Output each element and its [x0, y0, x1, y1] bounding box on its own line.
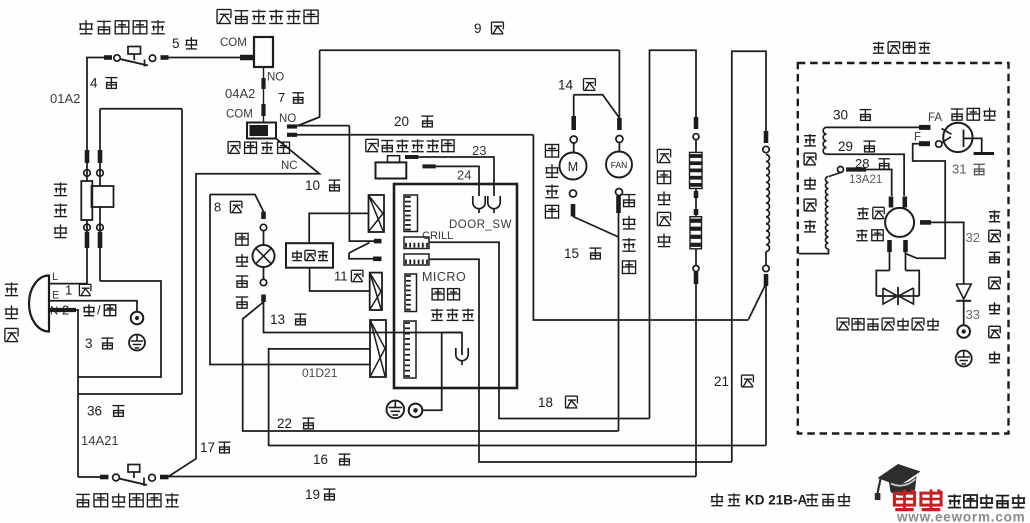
- connector CN2: [370, 273, 382, 310]
- pin header J5: [404, 321, 416, 378]
- wire 15白 (motor commons): [573, 213, 619, 431]
- label 18 黑: [538, 395, 577, 410]
- HV transformer T2 primary: [825, 177, 828, 249]
- svg-text:29: 29: [838, 139, 853, 154]
- wire board ground drop: [423, 333, 442, 411]
- wire 21棕 lower link: [749, 284, 767, 320]
- label 高压二极管组件: [989, 210, 1000, 362]
- label 8 棕: [214, 200, 242, 215]
- label 第二连锁开关 (second interlock): [366, 139, 454, 151]
- label NO2: [279, 113, 296, 125]
- board ground terminal: [409, 404, 423, 418]
- label 5 黄: [172, 36, 197, 51]
- label 31 红: [952, 162, 985, 177]
- wire 20白 to heater: [533, 135, 748, 320]
- wire NO2 to transformer relay: [297, 125, 349, 127]
- label NO: [267, 72, 284, 84]
- watermark 电子下载站: [948, 494, 1025, 507]
- magnetron thermostat TH2: [78, 465, 169, 487]
- svg-text:E: E: [52, 290, 59, 302]
- label 04A2: [225, 86, 255, 101]
- watermark www.eeworm.com: [896, 510, 1025, 523]
- first interlock switch S1: [240, 37, 273, 67]
- svg-text:M: M: [568, 160, 578, 174]
- bidirectional diode assembly D2 (双向二极管): [876, 252, 919, 305]
- micro control board U1 (outline): [394, 184, 517, 388]
- wire F heater loop: [906, 144, 946, 259]
- svg-text:14A21: 14A21: [81, 433, 119, 448]
- watermark 虫虫 (red): [894, 489, 942, 509]
- svg-text:15: 15: [564, 246, 579, 261]
- wire 16蓝: [269, 349, 766, 446]
- HV transformer T2 secondary: [823, 127, 826, 154]
- label 33: [966, 307, 980, 322]
- cavity thermostat TH1: [86, 47, 169, 67]
- label 炉腔温控器 (cavity thermostat): [79, 20, 165, 34]
- label 01D21: [302, 366, 338, 380]
- label 13 白: [270, 312, 306, 327]
- quartz tube assembly R1 (石英管组件): [690, 117, 703, 477]
- earth symbol (power): [129, 335, 145, 351]
- label 16 蓝: [313, 452, 350, 467]
- label COM2: [226, 109, 253, 121]
- wire net-01A2 riser x182: [181, 109, 183, 394]
- pin header J4: [405, 274, 417, 312]
- svg-text:/: /: [97, 303, 101, 318]
- wire 23: [418, 157, 494, 196]
- label 指示灯泡: [236, 233, 248, 308]
- fan motor M2: [606, 50, 632, 213]
- svg-text:19: 19: [305, 487, 320, 502]
- label 控制: [432, 289, 459, 300]
- label 30 红: [833, 107, 871, 122]
- svg-text:24: 24: [457, 168, 471, 183]
- label 28 红: [855, 156, 890, 171]
- wire 22蓝: [243, 302, 619, 431]
- svg-text:21: 21: [714, 374, 729, 389]
- wire 13白: [264, 302, 463, 333]
- wire N (3蓝 drop): [49, 310, 78, 477]
- svg-text:16: 16: [313, 452, 328, 467]
- label 美的 KD 21B-A 电磁炉: [711, 493, 850, 508]
- wire 1棕 (L): [49, 283, 87, 285]
- wire 18黑 (J2 to quartz rail): [429, 242, 650, 418]
- label 转盘电机: [545, 145, 558, 219]
- door switch socket (24): [473, 196, 485, 213]
- svg-text:01D21: 01D21: [302, 366, 338, 380]
- heater element R2: [763, 131, 770, 446]
- wire 8棕: [210, 195, 264, 220]
- label 高压变压器: [804, 134, 816, 232]
- svg-text:30: 30: [833, 107, 848, 122]
- label 32: [966, 230, 980, 245]
- svg-text:NO: NO: [267, 72, 284, 84]
- label 2 黄/绿: [62, 303, 116, 318]
- watermark cap logo: [875, 464, 921, 500]
- svg-text:MICRO: MICRO: [422, 270, 466, 284]
- label 11 棕: [334, 269, 363, 284]
- label 高压电容: [856, 207, 884, 240]
- fuse F1: [81, 150, 113, 284]
- label 高压危险: [873, 42, 930, 53]
- label MICRO: [422, 270, 466, 284]
- label 22 蓝: [277, 416, 314, 431]
- label 19白: [305, 487, 335, 502]
- label DOOR_SW: [449, 219, 512, 231]
- label 磁控管温控器 (magnetron thermostat): [76, 493, 179, 507]
- svg-text:13A21: 13A21: [849, 174, 882, 186]
- label 磁控管: [951, 108, 996, 120]
- magnetron V1 (磁控管): [936, 123, 994, 154]
- label 17蓝: [200, 440, 230, 455]
- label 21 棕: [714, 374, 753, 389]
- label 1 棕: [65, 283, 91, 298]
- svg-text:10: 10: [305, 178, 320, 193]
- wire 5黄: [169, 57, 241, 59]
- label 3 蓝: [85, 336, 113, 351]
- label 监控开关: [228, 142, 289, 154]
- svg-text:CRILL: CRILL: [422, 230, 453, 242]
- wire 32 (cap to HV diode): [920, 222, 964, 284]
- pin header J2: [404, 237, 429, 249]
- wire 29红: [827, 154, 905, 196]
- label 14A21: [81, 433, 119, 448]
- label 风扇电机: [622, 195, 635, 274]
- wire 4红/01A2 (fuse-left riser): [86, 58, 87, 151]
- pin header J1: [404, 195, 418, 232]
- svg-text:17: 17: [200, 440, 215, 455]
- svg-text:32: 32: [966, 230, 980, 245]
- svg-text:KD 21B-A: KD 21B-A: [745, 493, 808, 508]
- HV diode D1: [956, 284, 971, 325]
- wire net riser-bottom link: [78, 393, 182, 395]
- wire 14黑 branch: [574, 95, 620, 118]
- svg-text:23: 23: [472, 143, 486, 158]
- wire heater bracket: [732, 51, 766, 462]
- svg-text:NC: NC: [281, 160, 298, 172]
- label 14 黑: [558, 77, 595, 92]
- svg-text:11: 11: [334, 269, 348, 284]
- wire 28红: [846, 170, 892, 197]
- HV transformer primary terminal: [829, 167, 844, 177]
- label 9 棕: [474, 21, 503, 36]
- label 7 红: [278, 90, 304, 105]
- label 24: [457, 168, 471, 183]
- wire 19白: [169, 476, 697, 478]
- label 29 红: [838, 139, 875, 154]
- HV danger dashed box: [798, 63, 1009, 434]
- HV diode ground terminal: [957, 325, 970, 338]
- transformer T1 (变压器): [286, 243, 333, 268]
- second interlock switch S3: [376, 156, 436, 179]
- earth terminal: [131, 312, 144, 325]
- svg-text:F: F: [914, 132, 921, 144]
- label CRILL: [422, 230, 453, 242]
- wire T2 primary bottom: [799, 249, 829, 254]
- svg-text:www.eeworm.com: www.eeworm.com: [896, 510, 1025, 523]
- svg-text:13: 13: [270, 312, 285, 327]
- label 电源线 (power cord): [5, 282, 18, 341]
- wire 01D21 (8棕 drop): [210, 195, 370, 365]
- svg-text:FAN: FAN: [611, 160, 628, 170]
- svg-text:31: 31: [952, 162, 966, 177]
- door switch socket (23): [488, 196, 500, 213]
- wire transformer-top: [309, 213, 368, 243]
- wire fuse-top link: [100, 109, 182, 150]
- svg-text:9: 9: [474, 21, 482, 36]
- wire 13白 board link + socket: [442, 333, 468, 366]
- label 石英管组件: [657, 149, 670, 246]
- wire NO2-drop to relay contact: [349, 126, 381, 242]
- connector CN1: [369, 195, 385, 232]
- label 23: [472, 143, 486, 158]
- svg-text:8: 8: [214, 200, 221, 215]
- wire 9棕 rail: [320, 49, 620, 51]
- svg-text:3: 3: [85, 336, 93, 351]
- label L: [52, 271, 58, 283]
- label 第一连锁开关 (first interlock switch): [217, 10, 318, 24]
- svg-text:5: 5: [172, 36, 180, 51]
- connector CN3: [370, 320, 386, 377]
- label COM: [220, 37, 247, 49]
- indicator lamp DS1 (指示灯泡): [253, 224, 275, 302]
- svg-text:COM: COM: [220, 37, 247, 49]
- label 15 白: [564, 246, 601, 261]
- svg-text:04A2: 04A2: [225, 86, 255, 101]
- svg-text:28: 28: [855, 156, 869, 171]
- label 36 蓝: [87, 403, 124, 418]
- wire quartz bracket: [650, 50, 697, 418]
- HV capacitor C1 (高压电容): [885, 197, 914, 253]
- wire 30红: [827, 126, 931, 128]
- svg-text:FA: FA: [928, 112, 942, 124]
- wire 20白 NC run: [297, 134, 533, 136]
- label 20 白: [394, 114, 433, 129]
- wire 2黄绿 (E): [49, 301, 137, 312]
- svg-text:22: 22: [277, 416, 292, 431]
- svg-text:1: 1: [65, 283, 72, 298]
- wire NO1-COM2 (dashed link): [263, 67, 265, 122]
- label 4 红: [90, 75, 117, 90]
- wire 11棕: [310, 268, 370, 291]
- wire 24: [436, 166, 479, 196]
- svg-text:7: 7: [278, 90, 285, 105]
- power cord plug P1: [29, 276, 49, 332]
- svg-text:20: 20: [394, 114, 409, 129]
- wire 9棕 riser + diagonal to NO: [297, 50, 320, 126]
- svg-text:COM: COM: [226, 109, 253, 121]
- label N: [50, 306, 58, 318]
- label 01A2: [50, 91, 80, 106]
- board earth symbol: [387, 401, 405, 419]
- svg-text:01A2: 01A2: [50, 91, 80, 106]
- wire 10红 (COM lever run): [169, 139, 320, 477]
- label NC: [281, 160, 298, 172]
- label E: [52, 290, 59, 302]
- svg-text:NO: NO: [279, 113, 296, 125]
- label 13A21: [849, 174, 882, 186]
- HV earth symbol: [956, 351, 972, 367]
- label 保险管 (fuse): [54, 182, 67, 237]
- monitor switch S2 (监控开关): [247, 123, 297, 139]
- relay lever K1: [349, 243, 382, 259]
- svg-text:4: 4: [90, 75, 98, 90]
- svg-text:36: 36: [87, 403, 102, 418]
- svg-text:33: 33: [966, 307, 980, 322]
- label 电路板: [431, 309, 474, 321]
- wire fuse-right U-link: [78, 281, 161, 377]
- svg-text:14: 14: [558, 77, 574, 92]
- wire door-sw 24 drop (J3): [429, 259, 732, 462]
- svg-text:DOOR_SW: DOOR_SW: [449, 219, 512, 231]
- label FA: [928, 112, 942, 124]
- svg-text:L: L: [52, 271, 58, 283]
- turntable motor M1: [560, 95, 587, 217]
- label 双向二极管组件: [837, 318, 939, 330]
- label 10 红: [305, 178, 340, 193]
- pin header J3: [404, 254, 429, 265]
- svg-text:18: 18: [538, 395, 553, 410]
- label F: [914, 132, 921, 144]
